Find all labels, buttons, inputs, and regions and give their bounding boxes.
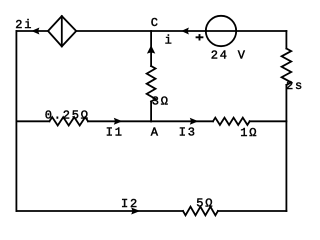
wire: top-left segment (left corner to dependent source) (16, 30, 48, 32)
wire: middle row, resistor R1 to node A (88, 120, 151, 122)
wire: left side vertical (15, 31, 17, 211)
wire: middle row left segment (16, 120, 49, 122)
wire: node A to resistor 1 ohm (151, 120, 213, 122)
svg-text:24 V: 24 V (211, 48, 247, 62)
svg-text:I1: I1 (106, 126, 124, 140)
resistor R3 1 ohm (middle right zigzag) (213, 118, 250, 125)
arrow for current I1 (pointing right) (114, 118, 123, 125)
svg-text:5Ω: 5Ω (196, 197, 214, 211)
wire: right side vertical below resistor 2s (285, 85, 287, 211)
voltage source V1 (circle), wire passes through (206, 16, 236, 46)
resistor R2 3 ohm (vertical zigzag C to A) (147, 66, 156, 102)
resistor 2s (right side vertical zigzag) (282, 49, 292, 86)
svg-text:0.25Ω: 0.25Ω (45, 109, 90, 123)
resistor R4 5 ohm (bottom zigzag) (183, 207, 218, 216)
svg-text:3Ω: 3Ω (152, 95, 170, 109)
arrow for 2i current (pointing left on top wire) (31, 28, 39, 35)
wire: top middle (dependent source to 24V source) (76, 30, 206, 32)
svg-text:2s: 2s (286, 79, 304, 93)
svg-text:I2: I2 (121, 197, 139, 211)
svg-text:1Ω: 1Ω (240, 126, 258, 140)
wire: resistor 1 ohm to right side (250, 120, 287, 122)
dependent source (diamond with vertical bar) (48, 16, 76, 46)
plus sign of 24V source (196, 34, 204, 40)
svg-text:A: A (151, 126, 160, 140)
wire: resistor 3 ohm to node A (150, 102, 152, 122)
resistor R1 0.25 ohm (middle left zigzag) (49, 117, 88, 125)
wire: bottom row right segment (218, 210, 287, 212)
svg-text:C: C (151, 16, 160, 30)
wire: through and right of source to top-right corner (206, 30, 286, 32)
wire: node C down to current arrow / resistor 3 ohm (150, 31, 152, 66)
arrow for current I3 (pointing right) (190, 118, 199, 125)
arrow for current i (pointing up on C-A branch) (147, 45, 155, 53)
arrow pointing left toward + of 24V source (181, 28, 189, 35)
arrow for current I2 (pointing right on bottom wire) (131, 208, 140, 215)
svg-text:2i: 2i (15, 18, 33, 32)
svg-text:i: i (165, 33, 174, 47)
wire: bottom row left segment (16, 210, 183, 212)
svg-text:I3: I3 (179, 126, 197, 140)
wire: right side vertical above resistor 2s (285, 31, 287, 49)
